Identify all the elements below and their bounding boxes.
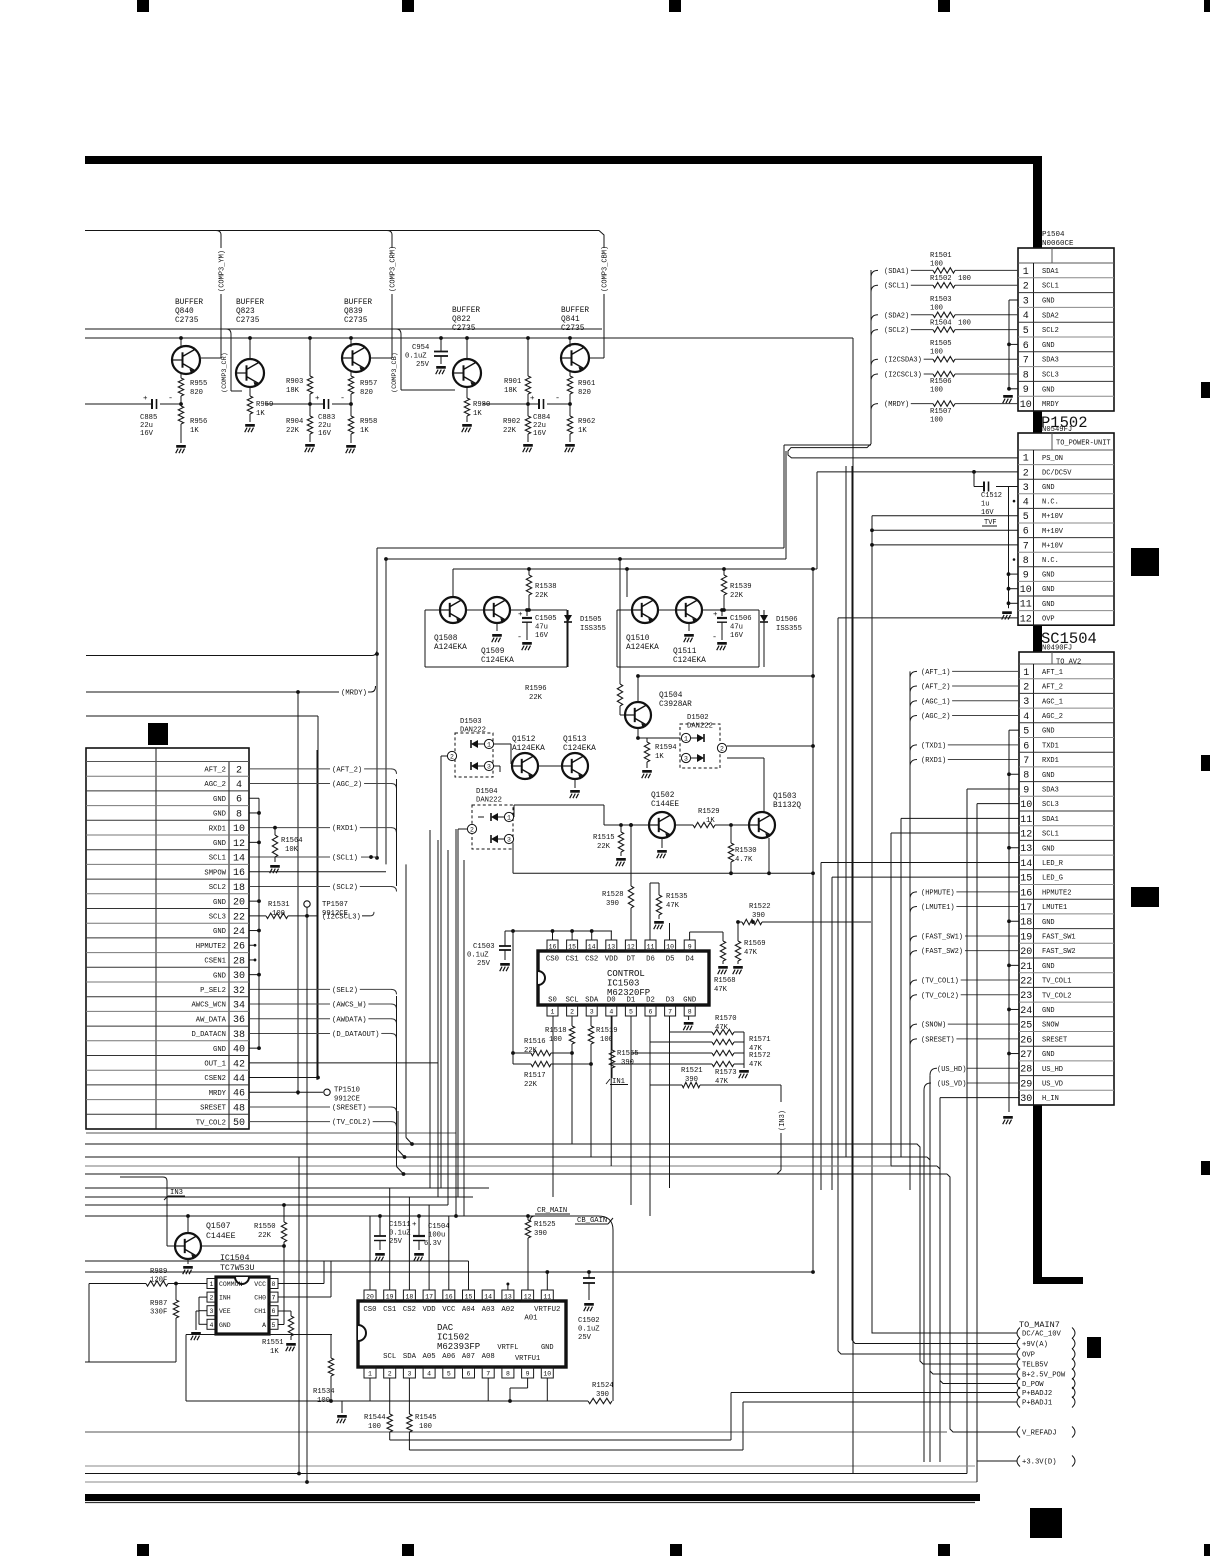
svg-text:R1534: R1534 [313,1388,335,1396]
svg-text:(TV_COL2): (TV_COL2) [332,1119,371,1127]
svg-text:330F: 330F [150,1309,167,1317]
svg-text:2: 2 [1023,682,1029,693]
svg-text:5: 5 [1023,512,1029,523]
svg-text:CS2: CS2 [585,956,598,964]
svg-text:Q841: Q841 [561,316,580,324]
svg-text:ISS355: ISS355 [776,625,802,633]
svg-text:DAN222: DAN222 [687,723,713,731]
svg-text:11: 11 [647,944,655,951]
svg-text:BUFFER: BUFFER [561,307,589,315]
svg-text:47K: 47K [744,949,758,957]
svg-text:C124EKA: C124EKA [673,657,706,665]
svg-text:8: 8 [236,809,242,820]
svg-text:2: 2 [236,765,242,776]
svg-text:(AWCS_W): (AWCS_W) [332,1002,367,1010]
svg-text:1: 1 [487,742,491,749]
svg-text:R904: R904 [286,418,303,426]
svg-text:3: 3 [684,756,688,763]
svg-text:19: 19 [1020,932,1032,943]
svg-text:VRTFU1: VRTFU1 [515,1355,540,1363]
svg-text:(I2CSCL3): (I2CSCL3) [884,372,922,380]
svg-text:R1517: R1517 [524,1072,546,1080]
svg-text:7: 7 [486,1371,490,1378]
svg-text:A05: A05 [423,1353,436,1361]
svg-text:B1132Q: B1132Q [773,802,801,810]
svg-text:+: + [530,395,535,403]
svg-text:DAC: DAC [437,1323,454,1333]
svg-text:3: 3 [507,837,511,844]
svg-text:VDD: VDD [423,1306,437,1314]
svg-text:12: 12 [524,1294,532,1301]
svg-text:R1505: R1505 [930,340,952,348]
svg-text:2: 2 [570,1009,574,1016]
svg-text:(AWDATA): (AWDATA) [332,1016,367,1024]
svg-text:SDA2: SDA2 [1042,312,1059,320]
svg-text:A08: A08 [482,1353,495,1361]
svg-text:N0549FJ: N0549FJ [1042,426,1072,434]
svg-text:R1544: R1544 [364,1414,386,1422]
svg-text:42: 42 [233,1059,245,1070]
svg-text:4: 4 [1023,712,1029,723]
svg-text:0.1uZ: 0.1uZ [578,1326,600,1334]
svg-text:C1502: C1502 [578,1317,600,1325]
svg-text:SDA1: SDA1 [1042,816,1059,824]
svg-text:SCL2: SCL2 [209,884,226,892]
svg-text:GND: GND [541,1344,554,1352]
svg-text:R957: R957 [360,380,377,388]
svg-text:INH: INH [219,1295,231,1302]
svg-text:25V: 25V [578,1334,592,1342]
svg-text:GND: GND [1042,586,1055,594]
svg-text:A01: A01 [524,1315,538,1323]
svg-text:18: 18 [405,1294,413,1301]
svg-text:C885: C885 [140,414,157,422]
svg-text:(SCL1): (SCL1) [884,283,909,291]
svg-text:TV_COL2: TV_COL2 [196,1119,226,1127]
svg-text:DAN222: DAN222 [460,727,486,735]
svg-text:4: 4 [236,780,242,791]
svg-text:B+2.5V_POW: B+2.5V_POW [1022,1372,1066,1380]
svg-text:R1502: R1502 [930,275,952,283]
svg-text:+: + [412,1221,417,1229]
svg-text:100: 100 [549,1036,562,1044]
svg-text:R1535: R1535 [666,893,688,901]
svg-text:GND: GND [219,1322,231,1329]
svg-text:9: 9 [688,944,692,951]
svg-text:C144EE: C144EE [651,801,679,809]
svg-text:2: 2 [1023,468,1029,479]
svg-text:(TV_COL1): (TV_COL1) [921,978,959,986]
svg-text:22K: 22K [524,1047,538,1055]
svg-text:14: 14 [484,1294,492,1301]
svg-text:R1539: R1539 [730,583,752,591]
svg-text:1u: 1u [981,501,989,509]
svg-text:3: 3 [210,1308,214,1315]
svg-text:AWCS_WCN: AWCS_WCN [191,1002,226,1010]
svg-text:SDA: SDA [403,1353,417,1361]
svg-text:5: 5 [1023,727,1029,738]
svg-text:390: 390 [534,1230,547,1238]
svg-text:P+BADJ1: P+BADJ1 [1022,1400,1052,1408]
svg-text:R902: R902 [503,418,520,426]
svg-text:0.1uZ: 0.1uZ [405,353,427,361]
svg-text:C1506: C1506 [730,615,752,623]
svg-text:7: 7 [1023,541,1029,552]
svg-text:2: 2 [210,1295,214,1302]
svg-text:(RXD1): (RXD1) [332,825,358,833]
svg-text:SCL3: SCL3 [1042,801,1059,809]
svg-text:22: 22 [1020,976,1032,987]
svg-text:(COMP3_CBM): (COMP3_CBM) [602,246,610,292]
svg-text:25V: 25V [477,960,491,968]
svg-text:US_VD: US_VD [1042,1080,1063,1088]
svg-text:R987: R987 [150,1300,167,1308]
svg-text:7: 7 [668,1009,672,1016]
svg-text:6.3V: 6.3V [424,1240,442,1248]
svg-text:3: 3 [487,764,491,771]
svg-text:Q823: Q823 [236,308,255,316]
svg-text:FAST_SW2: FAST_SW2 [1042,948,1076,956]
svg-text:30: 30 [233,971,245,982]
svg-text:TXD1: TXD1 [1042,742,1059,750]
svg-text:DC/DC5V: DC/DC5V [1042,469,1072,477]
svg-text:AGC_1: AGC_1 [1042,698,1063,706]
svg-text:HPMUTE2: HPMUTE2 [196,943,226,951]
svg-text:820: 820 [190,389,203,397]
svg-text:LED_G: LED_G [1042,875,1063,883]
svg-text:(SCL2): (SCL2) [332,884,358,892]
svg-text:A03: A03 [482,1306,495,1314]
svg-text:6: 6 [1023,741,1029,752]
svg-text:1: 1 [551,1009,555,1016]
svg-text:R1564: R1564 [281,837,303,845]
svg-text:LED_R: LED_R [1042,860,1064,868]
svg-text:47K: 47K [715,1024,729,1032]
svg-text:R1538: R1538 [535,583,557,591]
svg-text:N0060CE: N0060CE [1042,240,1074,248]
svg-text:(COMP3_CB): (COMP3_CB) [391,352,399,393]
svg-text:820: 820 [578,389,591,397]
svg-text:OVP: OVP [1022,1352,1035,1360]
svg-text:16: 16 [1020,888,1032,899]
svg-text:CS2: CS2 [403,1306,416,1314]
svg-text:1: 1 [1023,267,1029,278]
svg-text:(D_DATAOUT): (D_DATAOUT) [332,1031,379,1039]
svg-text:M62320FP: M62320FP [607,988,650,998]
svg-text:CH1: CH1 [254,1308,266,1315]
svg-text:1K: 1K [256,410,265,418]
svg-text:11: 11 [1020,815,1032,826]
svg-text:D_DATACN: D_DATACN [191,1031,226,1039]
svg-text:CS0: CS0 [363,1306,376,1314]
svg-text:22u: 22u [140,422,153,430]
svg-text:100: 100 [368,1423,381,1431]
svg-text:(I2CSDA3): (I2CSDA3) [884,357,922,365]
svg-text:C1505: C1505 [535,615,557,623]
svg-text:AFT_2: AFT_2 [1042,684,1063,692]
svg-text:100: 100 [272,910,285,918]
svg-text:(HPMUTE): (HPMUTE) [921,889,955,897]
svg-text:D1505: D1505 [580,616,602,624]
svg-text:22K: 22K [535,592,549,600]
svg-text:10K: 10K [285,846,299,854]
svg-text:N.C.: N.C. [1042,557,1059,565]
svg-text:D6: D6 [646,956,655,964]
svg-text:16V: 16V [318,430,332,438]
svg-text:27: 27 [1020,1050,1032,1061]
svg-text:18K: 18K [286,387,300,395]
svg-text:GND: GND [1042,342,1055,350]
svg-text:SDA3: SDA3 [1042,357,1059,365]
svg-text:1: 1 [684,736,688,743]
svg-text:P1504: P1504 [1042,231,1065,239]
svg-text:390: 390 [596,1391,609,1399]
svg-text:1: 1 [507,815,511,822]
svg-text:R955: R955 [190,380,207,388]
svg-text:R1531: R1531 [268,901,290,909]
svg-text:BUFFER: BUFFER [452,307,480,315]
svg-text:5: 5 [272,1322,276,1329]
svg-text:2: 2 [470,827,474,834]
svg-text:25V: 25V [416,361,430,369]
svg-text:29: 29 [1020,1079,1032,1090]
svg-text:GND: GND [213,928,226,936]
svg-text:GND: GND [1042,601,1055,609]
svg-text:16V: 16V [140,430,154,438]
svg-text:100: 100 [419,1423,432,1431]
svg-text:1K: 1K [706,817,715,825]
svg-text:(AFT_2): (AFT_2) [921,684,950,692]
svg-text:GND: GND [213,1046,226,1054]
svg-text:+: + [315,395,320,403]
svg-text:(MRDY): (MRDY) [341,690,367,698]
svg-text:MRDY: MRDY [209,1090,227,1098]
svg-text:+3.3V(D): +3.3V(D) [1022,1459,1057,1467]
svg-text:24: 24 [233,927,245,938]
svg-text:0.1uZ: 0.1uZ [467,952,489,960]
svg-text:34: 34 [233,1000,245,1011]
svg-text:COMMON: COMMON [219,1281,243,1288]
svg-text:TV_COL2: TV_COL2 [1042,992,1071,1000]
svg-text:100: 100 [958,320,971,328]
svg-text:22: 22 [233,912,245,923]
svg-text:25: 25 [1020,1021,1032,1032]
svg-text:SNOW: SNOW [1042,1022,1060,1030]
svg-text:38: 38 [233,1030,245,1041]
svg-text:47K: 47K [749,1061,763,1069]
svg-text:50: 50 [233,1118,245,1129]
svg-text:R1506: R1506 [930,378,952,386]
svg-text:R1503: R1503 [930,296,952,304]
svg-text:4: 4 [427,1371,431,1378]
svg-text:R1507: R1507 [930,408,952,416]
svg-text:1: 1 [368,1371,372,1378]
svg-text:100: 100 [958,275,971,283]
svg-text:R901: R901 [504,378,521,386]
svg-text:GND: GND [213,972,226,980]
svg-text:23: 23 [1020,991,1032,1002]
svg-text:47u: 47u [730,624,743,632]
svg-text:1K: 1K [270,1348,279,1356]
svg-text:MRDY: MRDY [1042,401,1060,409]
svg-text:(US_VD): (US_VD) [937,1080,966,1088]
svg-text:16V: 16V [533,430,547,438]
svg-text:8: 8 [1023,370,1029,381]
svg-text:H_IN: H_IN [1042,1095,1059,1103]
svg-text:(SNOW): (SNOW) [921,1022,946,1030]
svg-text:16: 16 [445,1294,453,1301]
svg-text:22u: 22u [318,422,331,430]
svg-text:C884: C884 [533,414,550,422]
svg-text:GND: GND [1042,919,1055,927]
svg-text:9: 9 [1023,785,1029,796]
svg-text:9: 9 [1023,385,1029,396]
svg-text:Q1507: Q1507 [206,1222,231,1231]
svg-text:R1570: R1570 [715,1015,737,1023]
svg-text:OVP: OVP [1042,615,1055,623]
svg-text:(SRESET): (SRESET) [921,1036,955,1044]
svg-text:1: 1 [210,1281,214,1288]
svg-text:R989: R989 [150,1268,167,1276]
svg-text:(SDA1): (SDA1) [884,268,909,276]
svg-text:3: 3 [1023,697,1029,708]
svg-text:22K: 22K [286,427,300,435]
svg-text:RXD1: RXD1 [209,825,226,833]
svg-text:Q1504: Q1504 [659,692,683,700]
svg-text:3: 3 [590,1009,594,1016]
svg-text:48: 48 [233,1103,245,1114]
svg-text:A06: A06 [442,1353,455,1361]
svg-text:TO_MAIN7: TO_MAIN7 [1019,1320,1060,1330]
svg-text:BUFFER: BUFFER [175,299,203,307]
svg-text:GND: GND [1042,484,1055,492]
svg-text:OUT_1: OUT_1 [204,1060,226,1068]
svg-text:13: 13 [504,1294,512,1301]
svg-text:10: 10 [1020,585,1032,596]
svg-text:44: 44 [233,1074,245,1085]
svg-text:C883: C883 [318,414,335,422]
svg-text:20: 20 [1020,947,1032,958]
svg-text:R1596: R1596 [525,685,547,693]
svg-text:TO_POWER-UNIT: TO_POWER-UNIT [1056,440,1111,448]
svg-text:+: + [143,395,148,403]
svg-text:(LMUTE1): (LMUTE1) [921,904,955,912]
svg-text:(AGC_2): (AGC_2) [921,713,950,721]
svg-text:A: A [262,1322,266,1329]
svg-text:30: 30 [1020,1094,1032,1105]
svg-text:TP1507: TP1507 [322,901,348,909]
svg-text:C1504: C1504 [428,1223,450,1231]
svg-text:18: 18 [233,883,245,894]
svg-text:SDA1: SDA1 [1042,268,1059,276]
svg-text:820: 820 [360,389,373,397]
svg-text:C954: C954 [412,344,429,352]
svg-text:R1569: R1569 [744,940,766,948]
svg-text:9: 9 [1023,571,1029,582]
svg-text:26: 26 [233,942,245,953]
svg-text:2: 2 [388,1371,392,1378]
svg-text:Q1511: Q1511 [673,648,697,656]
svg-text:120F: 120F [150,1277,167,1285]
svg-text:15: 15 [568,944,576,951]
svg-text:9: 9 [526,1371,530,1378]
svg-text:8: 8 [1023,556,1029,567]
svg-text:6: 6 [1023,527,1029,538]
svg-text:Q1502: Q1502 [651,792,675,800]
svg-text:D3: D3 [666,997,675,1005]
svg-text:SCL3: SCL3 [209,913,226,921]
svg-text:4.7K: 4.7K [735,856,753,864]
svg-text:7: 7 [272,1295,276,1302]
svg-text:3: 3 [1023,483,1029,494]
svg-text:(RXD1): (RXD1) [921,757,946,765]
svg-text:16: 16 [549,944,557,951]
svg-text:22K: 22K [529,694,543,702]
svg-text:VEE: VEE [219,1308,231,1315]
svg-text:20: 20 [233,898,245,909]
svg-text:C1503: C1503 [473,943,495,951]
svg-text:18: 18 [1020,918,1032,929]
svg-text:100u: 100u [428,1232,445,1240]
svg-text:(SCL1): (SCL1) [332,855,358,863]
svg-text:CSEN2: CSEN2 [204,1075,226,1083]
svg-text:22K: 22K [524,1081,538,1089]
svg-text:1: 1 [1023,668,1029,679]
svg-text:ISS355: ISS355 [580,625,606,633]
svg-text:5: 5 [447,1371,451,1378]
svg-text:US_HD: US_HD [1042,1066,1063,1074]
svg-text:TELB5V: TELB5V [1022,1362,1049,1370]
svg-text:R959: R959 [256,401,273,409]
svg-text:C1512: C1512 [981,492,1002,500]
svg-text:R1528: R1528 [602,891,624,899]
svg-text:46: 46 [233,1089,245,1100]
svg-text:R961: R961 [578,380,595,388]
svg-text:SCL3: SCL3 [1042,372,1059,380]
svg-text:AW_DATA: AW_DATA [196,1016,227,1024]
svg-text:SCL2: SCL2 [1042,327,1059,335]
svg-text:P_SEL2: P_SEL2 [200,987,226,995]
svg-text:Q1513: Q1513 [563,736,587,744]
svg-text:6: 6 [467,1371,471,1378]
svg-text:17: 17 [425,1294,433,1301]
svg-text:R1529: R1529 [698,808,720,816]
svg-text:390: 390 [621,1059,634,1067]
svg-text:R962: R962 [578,418,595,426]
svg-text:28: 28 [1020,1065,1032,1076]
svg-text:VCC: VCC [254,1281,266,1288]
svg-text:CSEN1: CSEN1 [204,958,226,966]
svg-text:SRESET: SRESET [1042,1036,1067,1044]
svg-text:20: 20 [366,1294,374,1301]
svg-text:8: 8 [1023,771,1029,782]
svg-text:18K: 18K [504,387,518,395]
svg-text:C2735: C2735 [452,325,476,333]
svg-text:14: 14 [233,853,245,864]
svg-text:DT: DT [627,956,636,964]
svg-text:Q839: Q839 [344,308,363,316]
svg-text:(COMP3_CRM): (COMP3_CRM) [390,246,398,292]
svg-text:IC1504: IC1504 [220,1254,250,1263]
svg-text:(AFT_2): (AFT_2) [332,766,362,774]
svg-text:12: 12 [1020,614,1032,625]
svg-text:IC1502: IC1502 [437,1333,469,1343]
svg-text:TO_AV2: TO_AV2 [1056,659,1081,667]
svg-text:(AFT_1): (AFT_1) [921,669,950,677]
svg-text:2: 2 [720,746,724,753]
svg-text:Q1509: Q1509 [481,648,505,656]
svg-text:(AGC_2): (AGC_2) [332,781,362,789]
